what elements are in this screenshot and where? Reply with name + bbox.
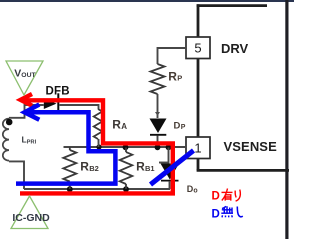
junction dot RA bottom xyxy=(96,144,101,149)
svg-text:1: 1 xyxy=(194,140,201,155)
label RB2 xyxy=(80,160,98,174)
pin 1 box xyxy=(186,137,210,159)
svg-text:P: P xyxy=(181,124,186,131)
kana shi (blue) xyxy=(237,207,243,217)
right border xyxy=(285,0,288,239)
resistor RA xyxy=(94,109,103,139)
svg-text:VSENSE: VSENSE xyxy=(224,139,278,154)
resistor RB1 xyxy=(120,148,133,190)
svg-text:R: R xyxy=(168,69,177,83)
wire pin5 to RP xyxy=(158,48,187,64)
svg-text:D: D xyxy=(174,120,181,131)
svg-text:IC-GND: IC-GND xyxy=(12,212,50,224)
node line VSENSE net xyxy=(64,146,187,148)
svg-text:V: V xyxy=(14,67,21,79)
label RB1 xyxy=(136,160,154,174)
pin 5 box xyxy=(186,37,210,59)
diode DFB xyxy=(44,98,57,109)
svg-text:5: 5 xyxy=(194,41,201,56)
svg-text:DRV: DRV xyxy=(221,41,249,56)
diode D0 xyxy=(161,164,180,180)
label RP xyxy=(168,69,182,83)
VOUT terminal triangle xyxy=(6,61,43,95)
wire node to D0 xyxy=(168,148,170,164)
label RA xyxy=(112,117,127,131)
IC U1 body xyxy=(197,4,289,170)
wire RA to node xyxy=(98,139,100,147)
top border xyxy=(0,0,294,2)
svg-text:o: o xyxy=(193,187,197,194)
label D0 xyxy=(187,184,198,194)
red annotation D-ari xyxy=(212,189,241,203)
svg-text:R: R xyxy=(80,160,89,174)
red current loop (D present) xyxy=(20,100,173,193)
diode DP xyxy=(150,119,167,134)
svg-text:D: D xyxy=(212,209,220,221)
wire DFB cathode to RA xyxy=(60,105,99,109)
resistor RP xyxy=(151,64,165,94)
ground rail wire xyxy=(24,188,170,190)
kanji mu (blue) xyxy=(221,206,233,217)
junction dot RB1 bottom xyxy=(123,186,129,192)
IC-GND terminal triangle xyxy=(11,196,48,229)
red loop arrowhead xyxy=(21,94,33,106)
phase dot xyxy=(6,119,13,126)
label LPRI xyxy=(22,135,37,146)
wire RP to DP xyxy=(157,94,159,118)
svg-text:R: R xyxy=(112,117,121,131)
wire DP to node xyxy=(157,136,159,148)
svg-text:A: A xyxy=(121,122,127,131)
junction dot RB2 bottom xyxy=(67,186,73,192)
resistor RB2 xyxy=(63,147,76,189)
label DP xyxy=(174,120,186,131)
junction dot RB1 top xyxy=(123,144,129,150)
anode tick D0 xyxy=(159,162,169,164)
label VOUT xyxy=(14,67,36,79)
wire D0 to ground rail xyxy=(169,181,171,189)
svg-text:OUT: OUT xyxy=(21,72,36,79)
arrow tick on DP wire xyxy=(155,112,160,116)
blue current loop (no D) xyxy=(16,112,115,183)
junction dot DP bottom xyxy=(155,144,161,150)
wire aux winding to DFB anode xyxy=(9,105,44,118)
svg-text:DFB: DFB xyxy=(46,86,70,98)
blue annotation D-nashi xyxy=(212,206,243,220)
blue pointer line xyxy=(151,151,194,185)
junction dot D0 top xyxy=(166,144,172,150)
svg-text:P: P xyxy=(177,74,182,83)
wire LPRI bottom to ground rail xyxy=(9,161,24,189)
kanji ari (red) xyxy=(222,189,233,201)
svg-text:PRI: PRI xyxy=(27,140,37,146)
inductor LPRI xyxy=(3,119,9,161)
blue loop arrowhead xyxy=(25,105,40,120)
svg-text:D: D xyxy=(212,191,220,203)
kana ri (red) xyxy=(235,190,240,202)
svg-text:B1: B1 xyxy=(145,164,155,173)
svg-text:R: R xyxy=(136,160,145,174)
svg-text:B2: B2 xyxy=(89,164,99,173)
